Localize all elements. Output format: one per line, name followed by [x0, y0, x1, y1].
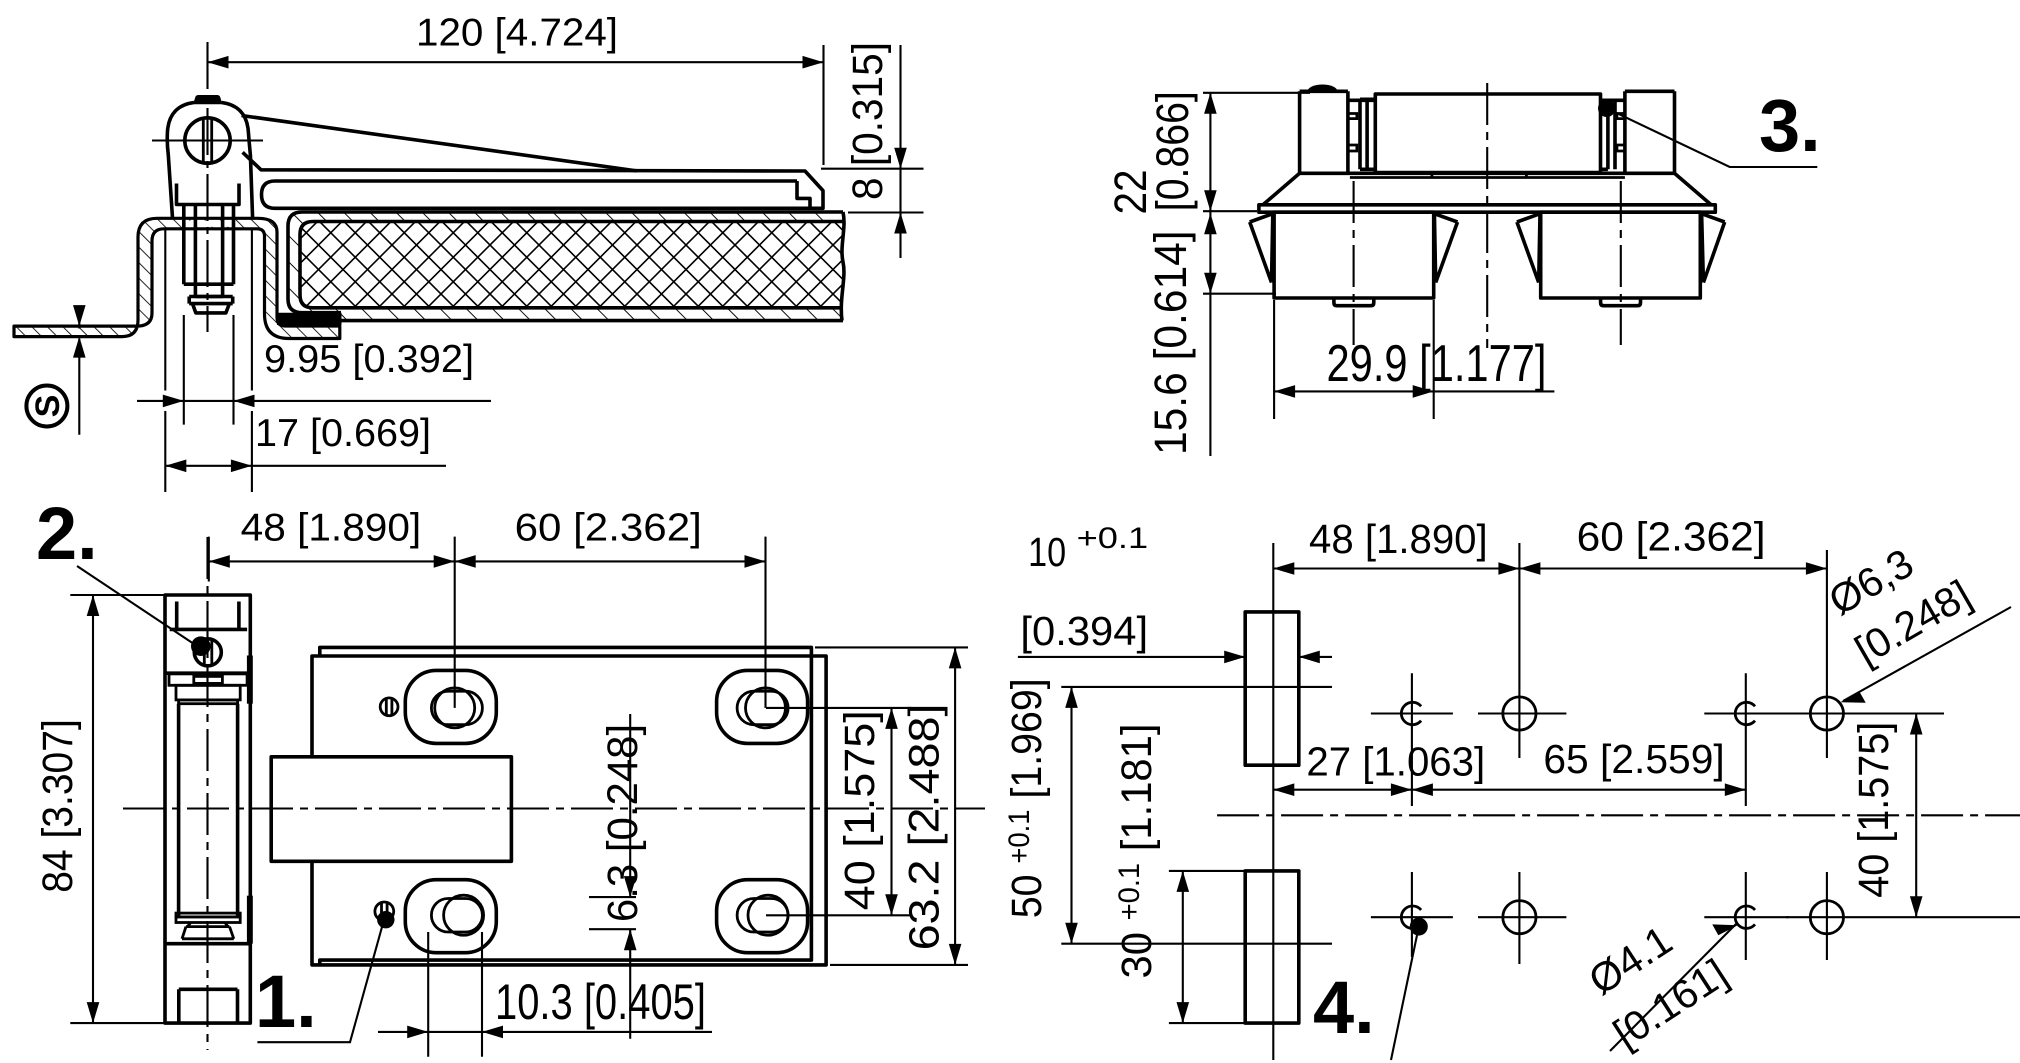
svg-text:30 +0.1 [1.181]: 30 +0.1 [1.181] — [1113, 724, 1161, 979]
svg-text:6.3 [0.248]: 6.3 [0.248] — [599, 724, 647, 922]
svg-text:48 [1.890]: 48 [1.890] — [241, 507, 422, 550]
svg-text:S: S — [29, 395, 67, 418]
svg-text:40 [1.575]: 40 [1.575] — [836, 710, 884, 910]
svg-text:63.2 [2.488]: 63.2 [2.488] — [901, 704, 949, 951]
svg-text:27 [1.063]: 27 [1.063] — [1306, 738, 1485, 784]
svg-text:29.9 [1.177]: 29.9 [1.177] — [1327, 335, 1547, 393]
svg-text:3.: 3. — [1759, 84, 1821, 167]
svg-text:10: 10 — [1028, 529, 1066, 575]
svg-text:8 [0.315]: 8 [0.315] — [844, 42, 892, 200]
svg-text:[0.866]: [0.866] — [1147, 91, 1198, 211]
svg-text:4.: 4. — [1313, 966, 1375, 1049]
svg-text:50 +0.1 [1.969]: 50 +0.1 [1.969] — [1003, 678, 1051, 918]
svg-text:120 [4.724]: 120 [4.724] — [416, 11, 618, 54]
svg-text:1.: 1. — [255, 960, 317, 1043]
svg-text:48 [1.890]: 48 [1.890] — [1309, 516, 1488, 562]
svg-text:40 [1.575]: 40 [1.575] — [1850, 722, 1898, 898]
svg-text:9.95 [0.392]: 9.95 [0.392] — [264, 338, 474, 381]
svg-text:17 [0.669]: 17 [0.669] — [255, 412, 431, 455]
svg-text:[0.394]: [0.394] — [1020, 608, 1148, 654]
svg-text:84 [3.307]: 84 [3.307] — [34, 719, 82, 893]
svg-text:65 [2.559]: 65 [2.559] — [1543, 736, 1724, 782]
svg-text:10.3 [0.405]: 10.3 [0.405] — [495, 974, 706, 1030]
svg-text:60 [2.362]: 60 [2.362] — [1577, 514, 1766, 560]
svg-text:+0.1: +0.1 — [1077, 522, 1149, 555]
svg-text:15.6 [0.614]: 15.6 [0.614] — [1145, 230, 1196, 455]
svg-text:60 [2.362]: 60 [2.362] — [515, 507, 702, 550]
svg-text:2.: 2. — [36, 492, 98, 575]
